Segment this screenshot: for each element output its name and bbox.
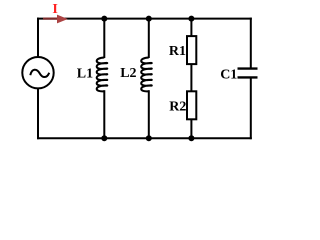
wire L1 branch lower: [103, 90, 105, 139]
node top R: [188, 16, 194, 22]
node bottom L2: [146, 135, 152, 141]
wire L2 branch upper: [148, 18, 150, 58]
node bottom L1: [101, 135, 107, 141]
wire R branch middle: [190, 64, 192, 92]
resistor R1: [187, 36, 196, 64]
inductor L2: [141, 58, 152, 92]
wire L2 branch lower: [148, 90, 150, 139]
svg-text:R2: R2: [169, 100, 186, 115]
wire R branch upper: [190, 18, 192, 37]
capacitor C1: [238, 69, 258, 78]
node top L2: [146, 16, 152, 22]
svg-text:C1: C1: [220, 67, 237, 82]
wire R branch lower: [190, 119, 192, 139]
wire left vertical lower: [37, 89, 39, 140]
voltage source V1: [22, 57, 53, 88]
wire right vertical upper: [250, 18, 252, 69]
wire bottom horizontal: [37, 137, 252, 139]
svg-text:R1: R1: [169, 44, 186, 59]
node bottom R: [188, 135, 194, 141]
node top L1: [101, 16, 107, 22]
current arrow I: [43, 15, 68, 24]
resistor R2: [187, 91, 196, 119]
wire top horizontal: [37, 18, 252, 20]
svg-text:L2: L2: [120, 66, 136, 81]
inductor L1: [97, 58, 108, 92]
wire L1 branch upper: [103, 18, 105, 58]
wire left vertical upper: [37, 18, 39, 57]
wire right vertical lower: [250, 77, 252, 139]
svg-text:I: I: [52, 2, 57, 17]
svg-text:L1: L1: [77, 67, 93, 82]
